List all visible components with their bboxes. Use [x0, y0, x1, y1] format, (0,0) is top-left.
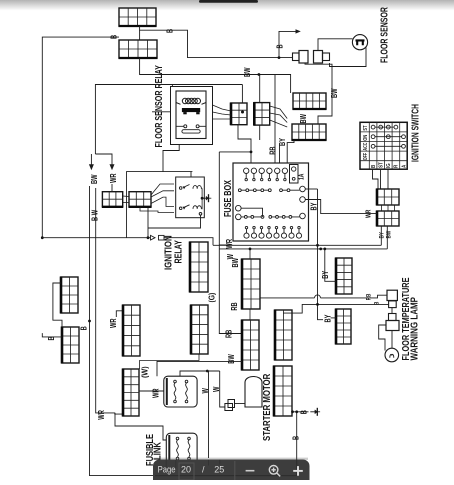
- viewer toolbar: [153, 459, 310, 480]
- connector grid E: [102, 192, 123, 207]
- svg-text:WR: WR: [226, 239, 234, 249]
- connector grid H: [242, 259, 260, 310]
- fusible elements box1: [174, 380, 188, 403]
- fusible elements box2: [176, 437, 190, 460]
- svg-text:A: A: [401, 165, 408, 168]
- wire lamp down: [391, 331, 393, 349]
- svg-text:BY: BY: [325, 314, 333, 322]
- ignition switch position labels: [362, 125, 369, 160]
- wire H bottom stub: [249, 309, 251, 320]
- wire BY below: [380, 226, 382, 245]
- wire P top feed: [283, 304, 389, 313]
- svg-text:RB: RB: [366, 294, 373, 301]
- wire lamp left loop: [379, 325, 386, 351]
- wire grid A down-right: [140, 26, 293, 58]
- wire F bottom drop: [147, 207, 149, 238]
- wire G vertical: [219, 152, 242, 334]
- wire left vertical B: [42, 37, 119, 238]
- toolbar divider: [234, 461, 236, 480]
- wire E-F link a: [123, 195, 129, 198]
- connector grid P: [275, 310, 292, 361]
- junction dot: [201, 197, 204, 200]
- svg-text:BW: BW: [331, 88, 339, 98]
- svg-text:B: B: [370, 165, 377, 168]
- svg-text:B: B: [277, 44, 285, 48]
- svg-text:B: B: [111, 35, 119, 39]
- connector grid c1: [231, 103, 247, 126]
- connector grid B: [119, 40, 158, 58]
- wire W drop 2: [220, 371, 225, 407]
- wire conn1 down to grid D: [305, 63, 332, 124]
- ignition switch table: [360, 122, 407, 169]
- viewer top shadow gradient: [0, 0, 454, 11]
- arrow head WR: [110, 164, 115, 170]
- svg-text:FLOOR SENSOR RELAY: FLOOR SENSOR RELAY: [153, 65, 165, 148]
- wire K left: [53, 283, 61, 303]
- wire relay to c1 a: [213, 105, 232, 111]
- wire F to contact box a: [151, 184, 174, 195]
- svg-text:BW: BW: [300, 114, 308, 124]
- connector grid L: [62, 327, 79, 364]
- chassis ground ignition relay: [202, 194, 212, 202]
- connector grid I: [242, 320, 259, 371]
- wire c2 down: [259, 125, 261, 140]
- wire lamp loop: [391, 308, 393, 314]
- wire conn2 to sensor: [318, 39, 353, 51]
- svg-text:BY: BY: [379, 232, 386, 239]
- wire into relay box top: [190, 172, 192, 177]
- connector grid c2: [254, 102, 269, 126]
- svg-text:B: B: [374, 302, 381, 305]
- svg-text:RB: RB: [231, 302, 239, 310]
- junction dot: [291, 410, 294, 413]
- wire c2 fan a: [270, 106, 288, 119]
- wire split bracket: [90, 154, 92, 166]
- viewer top scroll indicator bar: [199, 0, 258, 3]
- svg-text:WR: WR: [98, 410, 106, 420]
- toolbar minus icon: [246, 470, 255, 472]
- connector grid S: [336, 309, 351, 345]
- chassis ground starter: [310, 408, 320, 416]
- wire split bracket2: [95, 154, 112, 166]
- connector grid ign2: [377, 211, 399, 227]
- connector grid G1: [190, 242, 208, 293]
- warning lamp bulb: [385, 348, 399, 362]
- fuse row bottom: [244, 226, 302, 238]
- svg-text:W: W: [213, 386, 221, 392]
- svg-text:OFF: OFF: [362, 153, 369, 160]
- wire relay bottom loop: [148, 215, 201, 228]
- connector grid A (top): [119, 8, 157, 26]
- wire coil common: [200, 189, 203, 209]
- svg-text:BW: BW: [386, 230, 393, 238]
- relay pins: [176, 125, 206, 128]
- junction dot: [316, 244, 319, 247]
- svg-text:ST: ST: [363, 125, 370, 130]
- connector grid G2: [191, 305, 208, 355]
- svg-text:B W: B W: [92, 209, 100, 221]
- fuse row top: [244, 168, 288, 181]
- wire BW drop2: [89, 186, 91, 238]
- floor sensor relay outer box: [171, 87, 213, 145]
- inline connector symbols: [151, 235, 156, 240]
- wire fuse feed left: [219, 151, 251, 153]
- svg-text:B: B: [301, 410, 309, 414]
- wire RB conn b: [321, 295, 388, 298]
- svg-text:B: B: [48, 336, 56, 340]
- relay coils: [193, 186, 201, 209]
- wire BW horizontal pair a: [213, 244, 381, 246]
- junction dot: [278, 56, 281, 59]
- svg-text:BY: BY: [322, 271, 330, 279]
- c1 pin dot: [241, 111, 244, 114]
- junction dot: [295, 410, 298, 413]
- fuse mid-left circles: [236, 205, 263, 219]
- wire ign IG down: [387, 169, 389, 189]
- wire c1 inner down: [238, 125, 251, 163]
- wire relay top stub: [171, 85, 173, 87]
- wire Q to ground: [292, 411, 309, 413]
- arrow head: [296, 29, 301, 33]
- connector grid D: [292, 124, 327, 140]
- junction dot: [316, 303, 319, 306]
- fusible link box 2: [166, 433, 197, 464]
- svg-text:ACC: ACC: [362, 142, 369, 150]
- svg-text:BY: BY: [279, 138, 287, 146]
- wire WR into grid E: [111, 184, 113, 192]
- floor sensor element icon: [356, 40, 365, 45]
- relay contact bar: [182, 108, 200, 112]
- svg-text:BW: BW: [91, 174, 99, 184]
- wire BW below: [386, 226, 388, 249]
- svg-text:BW: BW: [232, 258, 240, 268]
- wire sensor return: [330, 48, 367, 67]
- wire W drop 1: [208, 371, 210, 458]
- wire BY into grid S: [331, 317, 337, 319]
- svg-text:IGNITION SWITCH: IGNITION SWITCH: [409, 104, 421, 162]
- svg-text:Page: Page: [158, 464, 176, 475]
- toolbar text: [158, 464, 225, 475]
- arrow head BW: [89, 164, 94, 170]
- connector grid ign1: [377, 189, 399, 206]
- 1A fuse sub-box: [290, 165, 299, 184]
- wire WR label stub: [219, 244, 232, 246]
- wire starter terminal: [235, 403, 246, 405]
- wire B down: [296, 412, 298, 476]
- connector grid F: [129, 192, 152, 207]
- wire WR stub grid M: [116, 311, 122, 317]
- wire relay to c1 c: [213, 118, 232, 120]
- wire F to contact box d: [140, 207, 174, 213]
- wire c2 fan b: [270, 113, 288, 123]
- junction dot: [147, 236, 150, 239]
- wire ign1-ign2 stub c: [394, 205, 396, 211]
- wire ign1-ign2 stub b: [387, 205, 389, 211]
- svg-text:(G): (G): [207, 292, 217, 302]
- wire BW bottom: [157, 361, 242, 376]
- floor sensor bulb circle: [352, 35, 367, 50]
- junction dot: [258, 73, 261, 76]
- wire RB conn: [260, 297, 315, 299]
- wire rail y84.5: [95, 85, 242, 155]
- svg-text:WARNING LAMP: WARNING LAMP: [409, 297, 420, 360]
- connector grid Q: [274, 366, 292, 417]
- svg-text:BW: BW: [244, 67, 252, 77]
- junction dot: [323, 248, 326, 251]
- svg-text:FUSE BOX: FUSE BOX: [222, 180, 233, 217]
- connector grid R: [336, 258, 352, 295]
- wire BY to grid R: [325, 249, 336, 281]
- junction dot: [88, 320, 91, 323]
- wire F to contact box c: [151, 197, 174, 206]
- fuse row 3: [241, 213, 305, 219]
- wire vertical WR: [96, 258, 123, 414]
- svg-text:R: R: [393, 165, 400, 168]
- wire vertical B: [90, 238, 297, 476]
- svg-text:B: B: [293, 436, 301, 440]
- wire fusible feed: [115, 413, 166, 440]
- svg-text:(W): (W): [140, 366, 149, 378]
- junction dot: [249, 248, 252, 251]
- svg-text:WR: WR: [153, 388, 161, 398]
- warning lamp connectors: [386, 314, 399, 331]
- wire RB down: [279, 145, 281, 163]
- svg-text:IG: IG: [386, 163, 393, 168]
- wire rail y74.5: [140, 58, 291, 93]
- svg-text:RB: RB: [226, 330, 234, 338]
- wire relay to c1 b: [213, 112, 232, 115]
- wire WR right: [305, 200, 377, 214]
- starter motor body: [245, 377, 262, 408]
- wire hop over vertical: [315, 295, 321, 298]
- wire box1 top: [180, 371, 220, 376]
- ignition switch terminal labels: [370, 162, 407, 168]
- connector grid K: [61, 277, 78, 314]
- ignition relay contact box: [176, 177, 205, 218]
- junction dot: [206, 370, 209, 373]
- svg-text:20: 20: [181, 465, 191, 475]
- junction dot: [41, 236, 44, 239]
- wire BY right: [305, 188, 317, 190]
- wire BW horizontal pair b: [219, 248, 387, 250]
- svg-text:W: W: [202, 388, 210, 394]
- wire K stub: [53, 303, 62, 327]
- wire relay bottom stub: [163, 145, 179, 172]
- relay contact pins and arrows: [179, 185, 189, 210]
- wire arrow riser: [279, 31, 296, 57]
- starter motor terminal: [228, 400, 235, 408]
- svg-text:WR: WR: [110, 318, 118, 328]
- svg-text:B: B: [167, 29, 175, 33]
- wire G2 bottom: [140, 354, 200, 369]
- small connector box: [225, 404, 233, 411]
- junction dot: [250, 151, 253, 154]
- junction dot: [319, 248, 322, 251]
- wire c2 fan c: [270, 120, 288, 127]
- toolbar plus icon: [293, 466, 303, 476]
- wire horizontal y237.7 b: [164, 238, 213, 246]
- wire BW drop: [95, 188, 97, 258]
- wire B into L: [42, 333, 62, 337]
- svg-text:STARTER MOTOR: STARTER MOTOR: [261, 373, 272, 441]
- relay pin bottom: [199, 213, 202, 216]
- wire c1 top feed: [241, 85, 243, 104]
- schematic wires faintly visible through toolbar: [155, 460, 297, 476]
- svg-text:FLOOR SENSOR: FLOOR SENSOR: [378, 6, 390, 63]
- toolbar magnifier zoom icon: [269, 466, 280, 477]
- connector grid N: [123, 369, 139, 417]
- svg-text:WR: WR: [365, 209, 373, 218]
- svg-text:WR: WR: [110, 173, 118, 183]
- svg-text:LINK: LINK: [152, 442, 163, 460]
- wire ign ST down: [380, 169, 382, 189]
- wire c2 top feed b: [274, 75, 276, 164]
- wire BY long vertical to S: [318, 189, 324, 320]
- floor sensor connector pair 1: [293, 51, 309, 64]
- wire grid B top stub: [139, 30, 141, 40]
- relay slot: [182, 130, 200, 133]
- svg-text:RB: RB: [270, 146, 278, 154]
- relay box 1: [164, 376, 197, 407]
- svg-text:RELAY: RELAY: [172, 240, 184, 264]
- wire grid D down: [287, 140, 294, 163]
- toolbar page field outline: [179, 463, 194, 480]
- connector grid M: [123, 305, 140, 357]
- svg-text:ON: ON: [363, 134, 370, 140]
- fuse box outline: [233, 163, 309, 241]
- ignition switch contact circles: [371, 125, 405, 148]
- svg-text:ST: ST: [378, 162, 385, 168]
- wire horizontal y237.7: [42, 237, 150, 239]
- svg-text:BW: BW: [228, 354, 236, 364]
- floor sensor relay inner box: [176, 91, 206, 139]
- connector grid C: [293, 93, 327, 109]
- wire E-F link b: [123, 202, 129, 204]
- svg-text:25: 25: [214, 465, 224, 475]
- wire ign B down: [373, 169, 379, 189]
- svg-text:B: B: [81, 326, 89, 330]
- wire c2 top feed a: [259, 75, 261, 103]
- floor sensor connector pair 2: [314, 51, 330, 64]
- relay left stub wire: [152, 111, 171, 113]
- ignition relay outer box: [127, 172, 193, 238]
- wire H top stub: [249, 249, 251, 259]
- wire to relay box1: [139, 390, 164, 392]
- inline connector to warning lamp circuit: [387, 290, 397, 307]
- svg-text:1A: 1A: [298, 173, 306, 180]
- relay coil: [176, 98, 206, 104]
- wire ign1-ign2 stub a: [381, 205, 383, 211]
- wire F to contact box b: [151, 191, 174, 197]
- fuse row 2: [238, 186, 305, 202]
